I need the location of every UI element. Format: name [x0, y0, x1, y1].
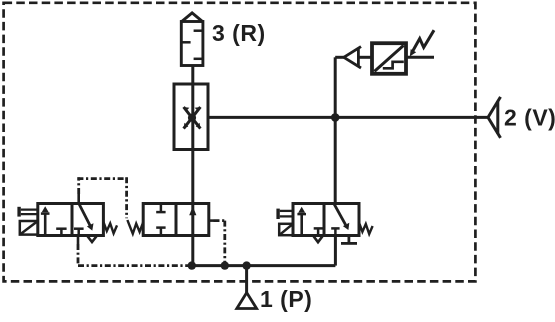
- valve V1 top port stub: [77, 194, 80, 204]
- valve V2 blocked port T top: [156, 204, 165, 213]
- main vertical wire (flow control through valve V2 to bus): [191, 84, 194, 150]
- wire silencer to flow control: [191, 66, 194, 85]
- junction node J3: [221, 261, 229, 269]
- supply bus wire: [192, 264, 336, 267]
- silencer U1 (exhaust port 3): [181, 13, 203, 66]
- junction node J4: [242, 261, 250, 269]
- valve V2 left spring: [127, 220, 143, 234]
- valve V1 right square: diagonal flow path with arrow: [79, 204, 93, 230]
- svg-text:3 (R): 3 (R): [212, 20, 266, 46]
- pilot line V1 output to V2 (dash-dot): [77, 177, 126, 218]
- valve V3 (right 3/2 solenoid valve) body: [293, 204, 359, 236]
- valve V3 right square: diagonal flow path with arrow: [334, 204, 349, 230]
- valve V1 blocked port T2: [74, 229, 84, 236]
- valve V1 (left 3/2 solenoid valve) body: [38, 204, 104, 236]
- valve V3 push button actuator: [276, 209, 293, 219]
- valve V1 exhaust triangle: [88, 236, 97, 242]
- enclosure dashed border: [4, 3, 476, 282]
- valve V2 (middle 2/2 valve) body: [143, 204, 209, 236]
- wire triangle to timer square: [358, 56, 372, 59]
- timer / converter square U2: [372, 43, 406, 74]
- valve V2 flow arrow (up) on through line: [189, 206, 196, 215]
- port 2 (V) triangle: [488, 97, 501, 138]
- valve V1 left square: flow arrow up: [41, 206, 50, 235]
- valve V1 solenoid box: [20, 221, 38, 235]
- svg-text:2 (V): 2 (V): [504, 105, 555, 131]
- valve V2 blocked port T bottom: [156, 228, 165, 236]
- valve V3 exhaust triangle: [314, 236, 323, 242]
- valve V3 left square: flow arrow up: [297, 207, 306, 236]
- wire output line to port 2: [208, 116, 488, 119]
- valve V3 return spring: [359, 222, 373, 234]
- valve V2 right pilot stub: [209, 219, 214, 222]
- port 1 (P) supply triangle: [237, 293, 257, 309]
- flow control valve FC1 (rect with X): [174, 84, 208, 150]
- junction node J1: [331, 113, 340, 122]
- wire bus up to valve V3 bottom port: [334, 236, 337, 266]
- junction node J2: [188, 261, 196, 269]
- wire junction J1 down to valve V3 top port: [334, 117, 337, 203]
- svg-text:1 (P): 1 (P): [260, 286, 312, 312]
- valve V1 return spring: [103, 222, 117, 234]
- valve V3 blocked port T with exhaust triangle: [314, 228, 323, 235]
- adjustment zigzag arrow: [410, 30, 434, 56]
- pilot line V1 bottom supply (dash-dot): [77, 236, 80, 245]
- wire timer square to right: [406, 56, 434, 59]
- valve V1 push button actuator: [17, 207, 37, 217]
- pilot triangle (points left): [344, 47, 361, 68]
- valve V1 blocked port T1: [56, 229, 66, 236]
- valve V3 solenoid box: [279, 224, 293, 235]
- wire bus down to port 1: [245, 266, 248, 293]
- valve V3 right square blocked port T: [331, 228, 339, 235]
- pilot line V2 to bus (dash-dot): [214, 221, 227, 266]
- valve V3 plugged port below: [341, 236, 357, 244]
- wire junction J1 up to timer branch: [334, 57, 337, 117]
